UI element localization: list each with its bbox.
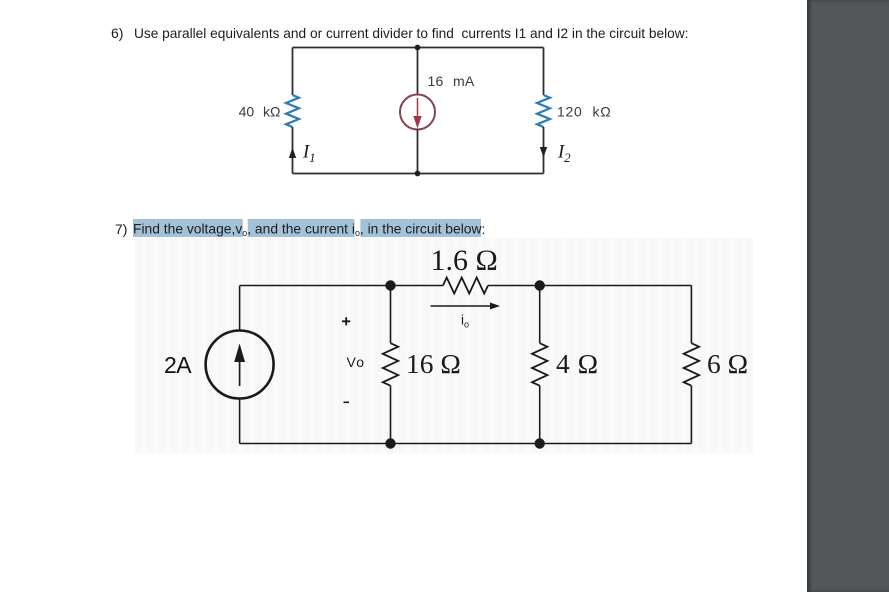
wire: middle branch upper segment bbox=[417, 48, 419, 95]
arrow I2 (down) bbox=[540, 147, 547, 158]
svg-text:6 Ω: 6 Ω bbox=[707, 348, 748, 379]
wire: top rail left of resistor bbox=[240, 285, 443, 287]
resistor 16 Ohm (vertical zigzag) bbox=[383, 343, 398, 386]
problem 7 title text (highlighted) bbox=[133, 221, 485, 238]
svg-text:40 kΩ: 40 kΩ bbox=[239, 104, 281, 120]
node dot bottom left bbox=[385, 438, 395, 448]
right dark sidebar bbox=[807, 0, 889, 592]
problem 7 number bbox=[115, 221, 127, 237]
svg-text:io: io bbox=[461, 313, 469, 330]
svg-text:16 Ω: 16 Ω bbox=[406, 348, 461, 379]
node dot bottom right bbox=[535, 438, 545, 448]
arrow I1 (up) bbox=[289, 148, 296, 159]
current source arrow (down, red) bbox=[417, 98, 419, 116]
resistor 40 kOhm (blue zigzag) bbox=[286, 95, 299, 127]
svg-text:1.6 Ω: 1.6 Ω bbox=[431, 244, 498, 277]
junction dot top bbox=[415, 45, 421, 51]
wire: 6 Ohm branch bottom lead bbox=[690, 386, 692, 444]
current source 2A (circle) bbox=[206, 331, 274, 399]
wire: 4 Ohm branch bottom lead bbox=[539, 386, 541, 444]
wire: top rail bbox=[293, 47, 544, 49]
svg-text:16 mA: 16 mA bbox=[428, 73, 475, 89]
current source 16 mA (circle) bbox=[400, 95, 435, 130]
svg-text:2A: 2A bbox=[164, 352, 192, 378]
wire: left branch upper segment bbox=[292, 48, 294, 96]
node dot top right bbox=[535, 280, 545, 290]
arrow io (right) bbox=[431, 305, 492, 307]
current source arrow (up) bbox=[239, 346, 241, 386]
svg-text:Vo: Vo bbox=[347, 354, 366, 370]
svg-text:I1: I1 bbox=[302, 143, 316, 166]
wire: top rail right of resistor bbox=[488, 285, 691, 287]
problem 6 title text bbox=[134, 25, 688, 41]
wire: middle branch lower segment bbox=[417, 130, 419, 174]
wire: left branch lower segment bbox=[292, 127, 294, 174]
problem 6 number bbox=[111, 25, 123, 41]
wire: 16 Ohm branch top lead bbox=[390, 286, 392, 344]
label minus bbox=[344, 401, 350, 403]
wire: source top lead bbox=[239, 286, 241, 331]
wire: right branch upper segment bbox=[543, 48, 545, 96]
svg-text:I2: I2 bbox=[557, 143, 571, 166]
label plus bbox=[342, 317, 350, 325]
svg-text:4 Ω: 4 Ω bbox=[556, 348, 599, 379]
wire: bottom rail bbox=[293, 173, 544, 175]
wire: 6 Ohm branch top lead bbox=[690, 286, 692, 344]
wire: 16 Ohm branch bottom lead bbox=[390, 386, 392, 444]
node dot top left bbox=[385, 280, 395, 290]
svg-text:120 kΩ: 120 kΩ bbox=[557, 104, 611, 120]
resistor 120 kOhm (blue zigzag) bbox=[537, 95, 550, 127]
wire: right branch lower segment bbox=[543, 127, 545, 174]
resistor 4 Ohm (vertical zigzag) bbox=[532, 343, 547, 386]
resistor 1.6 Ohm (horizontal zigzag) bbox=[443, 278, 488, 294]
resistor 6 Ohm (vertical zigzag) bbox=[684, 343, 699, 386]
faint scan background of circuit 7 figure bbox=[135, 238, 753, 453]
wire: source bottom lead bbox=[239, 399, 241, 444]
wire: 4 Ohm branch top lead bbox=[539, 286, 541, 344]
wire: bottom rail bbox=[240, 443, 692, 445]
junction dot bottom bbox=[415, 171, 421, 177]
